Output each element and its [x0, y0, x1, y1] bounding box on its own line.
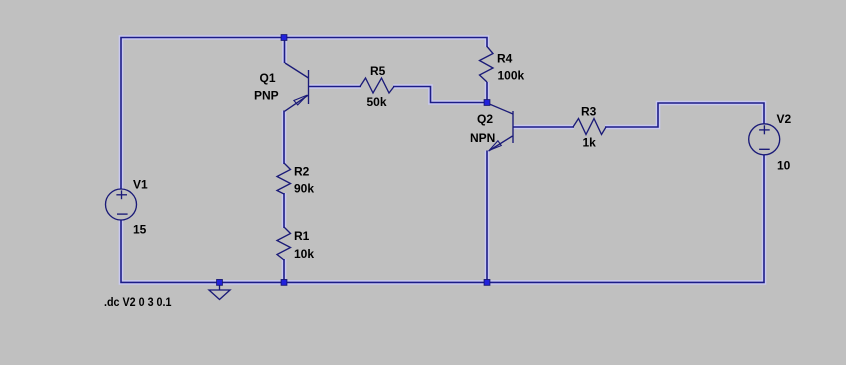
wire Q1 collector stub	[282, 38, 287, 64]
wire R2 to R1	[282, 193, 287, 228]
svg-text:10: 10	[777, 159, 791, 173]
junction node Q2 emitter / bottom rail	[484, 280, 490, 286]
wire Q2 base to R3 left	[513, 125, 574, 130]
wire Q2 emitter to bottom rail	[485, 151, 490, 284]
resistor R4	[480, 47, 494, 83]
voltage source V1	[106, 189, 137, 220]
svg-text:R5: R5	[370, 64, 386, 78]
wire R1 to bottom rail	[282, 259, 287, 283]
svg-text:50k: 50k	[367, 95, 387, 109]
ground	[209, 284, 230, 300]
svg-text:90k: 90k	[294, 182, 314, 196]
transistor Q1	[285, 63, 309, 111]
svg-text:100k: 100k	[498, 69, 525, 83]
svg-text:NPN: NPN	[470, 131, 495, 145]
svg-text:V2: V2	[777, 112, 792, 126]
svg-text:R4: R4	[497, 52, 513, 66]
wire Q1 emitter to R2	[282, 111, 287, 165]
wire V1 bottom, bottom rail, V2 bottom (0 net)	[121, 155, 764, 282]
svg-text:Q1: Q1	[260, 71, 276, 85]
svg-text:PNP: PNP	[254, 89, 279, 103]
junction node N1 (R4 / R5 / Q2 collector)	[484, 100, 490, 106]
resistor R5	[360, 78, 394, 93]
resistor R2	[277, 163, 291, 194]
resistor R1	[277, 227, 291, 260]
wire R4 bottom lead	[485, 82, 490, 103]
wire V2 top to R3 right	[605, 103, 764, 127]
svg-text:15: 15	[133, 223, 147, 237]
wire R5 to node N1	[393, 87, 487, 103]
svg-text:10k: 10k	[294, 247, 314, 261]
svg-text:R1: R1	[294, 229, 310, 243]
svg-text:.dc V2 0 3 0.1: .dc V2 0 3 0.1	[104, 295, 172, 309]
junction node top rail / Q1 collector	[281, 35, 287, 41]
junction node R1 / bottom rail	[281, 280, 287, 286]
wire top rail and left side (V+ net)	[121, 38, 487, 190]
svg-text:1k: 1k	[583, 136, 597, 150]
resistor R3	[573, 119, 606, 135]
svg-text:Q2: Q2	[477, 112, 493, 126]
junction node ground	[217, 280, 223, 286]
transistor Q2	[487, 103, 513, 151]
wire Q1 base to R5	[309, 84, 361, 89]
voltage source V2	[749, 124, 780, 155]
svg-text:V1: V1	[133, 178, 148, 192]
svg-text:R2: R2	[294, 165, 310, 179]
svg-text:R3: R3	[581, 105, 597, 119]
